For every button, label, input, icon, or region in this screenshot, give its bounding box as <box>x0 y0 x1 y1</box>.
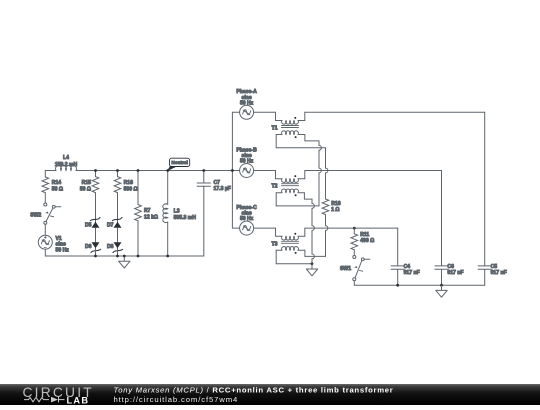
svg-text:D6: D6 <box>85 244 92 250</box>
diode D5 <box>85 217 100 228</box>
inductor L3 <box>163 171 196 257</box>
capacitor C5 <box>478 264 507 285</box>
svg-text:159.2 mH: 159.2 mH <box>55 162 78 168</box>
svg-text:12 kΩ: 12 kΩ <box>144 215 158 221</box>
svg-text:400 Ω: 400 Ω <box>360 238 374 244</box>
diode D7 <box>107 217 122 228</box>
CircuitLab logo <box>23 385 94 406</box>
wire bus2 lower vertical <box>326 215 328 257</box>
wire D8 to bottom <box>117 248 119 256</box>
svg-text:50 Hz: 50 Hz <box>240 100 254 106</box>
svg-text:T1: T1 <box>272 126 278 132</box>
wire T2 secondary right to vertical <box>298 193 312 199</box>
wire T1 secondary left to bus2 <box>276 135 325 148</box>
capacitor C4 <box>391 264 420 285</box>
svg-text:917 nF: 917 nF <box>491 270 507 276</box>
wire bus2 upper vertical <box>326 148 328 199</box>
svg-text:50 Hz: 50 Hz <box>240 216 254 222</box>
svg-text:SW2: SW2 <box>30 213 41 219</box>
wire bottom rail <box>45 255 204 257</box>
wire T2 secondary left to bus1 <box>276 193 319 206</box>
svg-text:SW1: SW1 <box>340 266 351 272</box>
svg-text:http://circuitlab.com/cf57wm4: http://circuitlab.com/cf57wm4 <box>114 395 239 404</box>
svg-text:R18: R18 <box>331 201 341 207</box>
wire D7-D8 <box>117 228 119 243</box>
wire top rail left segment <box>45 170 56 172</box>
svg-text:LAB: LAB <box>67 395 90 405</box>
svg-text:Neutral: Neutral <box>171 160 188 166</box>
svg-text:17.3 µF: 17.3 µF <box>214 186 231 192</box>
switch SW1 <box>340 256 370 281</box>
transformer T2 <box>276 171 305 183</box>
svg-text:C5: C5 <box>491 264 498 270</box>
wire bottom right rail <box>354 284 484 287</box>
diode D6 <box>85 242 101 252</box>
transformer T3 <box>276 228 305 240</box>
svg-text:50 Hz: 50 Hz <box>56 247 70 253</box>
wire source bus <box>231 112 240 228</box>
footer title text <box>114 386 394 404</box>
svg-text:C6: C6 <box>447 264 454 270</box>
svg-text:R7: R7 <box>144 208 151 214</box>
resistor R18 <box>322 199 341 215</box>
svg-text:R16: R16 <box>124 180 134 186</box>
svg-text:D7: D7 <box>107 223 114 229</box>
svg-text:D8: D8 <box>107 244 114 250</box>
ground (transformer secondary) <box>306 262 317 275</box>
svg-text:Tony Marxsen (MCPL) / RCC+nonl: Tony Marxsen (MCPL) / RCC+nonlin ASC + t… <box>114 386 394 395</box>
wire top rail to sources <box>76 170 240 172</box>
resistor R11 <box>351 228 374 255</box>
resistor R14 <box>42 171 63 204</box>
voltage source Phase-C sine 50 Hz <box>236 205 275 235</box>
svg-text:505.3 mH: 505.3 mH <box>174 215 197 221</box>
svg-text:R14: R14 <box>52 180 62 186</box>
svg-text:500 Ω: 500 Ω <box>124 187 138 193</box>
svg-text:L3: L3 <box>174 209 180 215</box>
voltage source Phase-A sine 50 Hz <box>236 89 275 119</box>
wire T1 secondary right to bus1 <box>298 135 319 141</box>
wire phase-A to C5 <box>305 112 485 265</box>
svg-text:T2: T2 <box>272 184 278 190</box>
svg-text:917 nF: 917 nF <box>447 270 463 276</box>
wire bus1 vertical <box>319 141 321 206</box>
svg-text:C7: C7 <box>214 180 221 186</box>
svg-text:C4: C4 <box>404 264 411 270</box>
wire T3 secondary right to bus2 <box>298 250 326 256</box>
wire phase-C to C4 <box>305 227 398 266</box>
svg-text:917 nF: 917 nF <box>404 270 420 276</box>
capacitor C6 <box>435 264 464 285</box>
wire SW1 to rail <box>353 281 355 286</box>
svg-text:R15: R15 <box>82 180 92 186</box>
svg-text:D5: D5 <box>85 223 92 229</box>
node Neutral flag <box>168 158 190 170</box>
diode D8 <box>107 242 123 252</box>
transformer T1 <box>276 112 305 124</box>
svg-text:50 Ω: 50 Ω <box>80 187 91 193</box>
voltage source V1 sine 50 Hz <box>38 224 69 256</box>
ground (left) <box>119 256 130 268</box>
resistor R16 <box>114 171 137 257</box>
svg-text:50 Hz: 50 Hz <box>240 159 254 165</box>
wire phase-B to C6 <box>305 171 442 266</box>
wire crossing vertical (T2 sec to ground node) <box>312 199 314 264</box>
inductor L4 <box>55 155 78 170</box>
ground (right rail) <box>436 285 447 297</box>
svg-text:50 Ω: 50 Ω <box>52 187 63 193</box>
junction dots on rails <box>94 169 205 257</box>
svg-text:R11: R11 <box>360 232 369 238</box>
switch SW2 <box>30 203 61 224</box>
resistor R15 <box>80 171 99 257</box>
voltage source Phase-B sine 50 Hz <box>236 147 275 177</box>
wire D6 to bottom <box>95 248 97 256</box>
wire D5-D6 <box>95 228 97 243</box>
svg-text:T3: T3 <box>272 241 278 247</box>
resistor R7 <box>135 171 158 257</box>
svg-text:L4: L4 <box>63 155 69 161</box>
capacitor C7 <box>197 171 231 257</box>
wire T3 secondary left to ground node <box>276 250 312 263</box>
svg-text:1 Ω: 1 Ω <box>331 207 339 213</box>
